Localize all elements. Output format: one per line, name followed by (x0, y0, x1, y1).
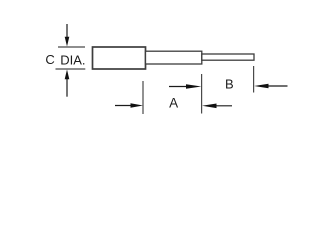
A right arrow (points left) (202, 104, 232, 109)
C DIA. top tick line (58, 46, 85, 48)
C DIA. down arrow (65, 24, 70, 47)
C DIA. up arrow (65, 70, 70, 97)
main body rectangle (93, 47, 146, 69)
middle section rectangle (146, 51, 202, 64)
svg-text:A: A (169, 96, 178, 111)
svg-text:DIA.: DIA. (60, 52, 85, 67)
C DIA. bottom tick line (56, 68, 86, 70)
A/B middle extension line (201, 74, 203, 114)
B right arrow (points left) (254, 84, 288, 89)
B left arrow (points right) (169, 84, 201, 89)
svg-text:C: C (45, 52, 54, 67)
svg-text:B: B (225, 76, 234, 91)
pin (tip) rectangle (202, 54, 254, 60)
B right extension line (253, 66, 255, 93)
A left arrow (points right) (115, 103, 143, 108)
A left extension line (142, 81, 144, 114)
